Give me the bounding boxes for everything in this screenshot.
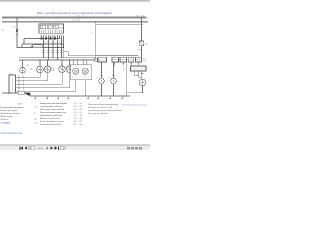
wire M3 top — [61, 60, 63, 66]
top page shadow — [0, 0, 150, 3]
legend right numbers — [74, 103, 83, 126]
svg-text:15 - 12: 15 - 12 — [74, 115, 83, 117]
connector row stubs — [115, 56, 139, 58]
junction dot right — [141, 49, 142, 50]
wire pin drop 2 — [43, 36, 45, 58]
motor M2 — [44, 66, 51, 73]
pump ground — [22, 73, 24, 75]
svg-text:See diagram: See diagram — [1, 121, 11, 124]
toolbar prev-page icon — [25, 146, 28, 150]
svg-text:Wiper motor: Wiper motor — [1, 115, 13, 118]
svg-text:Battery positive cable (Gere-F: Battery positive cable (Gere-Frtz) link — [40, 102, 68, 105]
svg-text:Motor - cigar lighter and warn: Motor - cigar lighter and warning screen… — [37, 11, 112, 15]
wire rail 15 — [2, 21, 148, 23]
wire rail aux — [96, 24, 144, 26]
footer separator line — [0, 144, 150, 146]
lamp E1 ground drop — [101, 84, 103, 96]
wire fuse feed — [16, 17, 18, 47]
legend third column — [88, 103, 123, 115]
switch S5 inner — [11, 78, 13, 92]
wire M1 top — [39, 60, 41, 66]
ground symbol 6 — [109, 96, 112, 100]
junction dots bus A — [42, 38, 56, 40]
lamp E2 ground drop — [113, 84, 115, 96]
wire step left 2 — [21, 44, 23, 48]
resistor R1 out wires — [134, 71, 142, 79]
svg-text:Washer: Washer — [1, 118, 9, 121]
wire pin drop 5 — [50, 36, 52, 39]
svg-text:31 - 16: 31 - 16 — [74, 124, 83, 126]
connector row box 2 — [120, 57, 127, 62]
unit U1 box — [71, 65, 92, 80]
ground symbol 5b — [97, 96, 100, 100]
ground wire to bus — [24, 93, 30, 96]
wire M2 top — [47, 60, 49, 66]
fuse S110 — [139, 41, 143, 46]
wire pump feed — [22, 60, 24, 67]
ground connector pair — [9, 92, 11, 94]
relay pin ticks — [42, 30, 62, 33]
lamp E1 — [99, 78, 104, 83]
relay contact cell 3 — [54, 25, 59, 29]
connector tick pairs on drops — [42, 51, 63, 52]
toolbar right layout icons — [127, 147, 142, 150]
wire step from drop 11 — [64, 52, 69, 56]
svg-text:0.5 br 0.5 sw 1.0 ro: 0.5 br 0.5 sw 1.0 ro — [44, 40, 60, 43]
relay internal marks — [42, 26, 57, 28]
toolbar next-page icon — [50, 146, 53, 150]
svg-text:C23a: C23a — [33, 46, 42, 48]
connector ticks on switch wires — [18, 76, 19, 92]
lamp E2 feed — [113, 62, 115, 78]
ground symbol 5 — [87, 96, 90, 100]
resistor R1 (blower resistor) — [131, 66, 147, 71]
svg-text:E4: E4 — [109, 78, 111, 80]
svg-text:Instrument cluster feed: Instrument cluster feed — [40, 123, 62, 126]
connector row box 4 — [136, 57, 142, 62]
blower motor M2 — [139, 79, 146, 86]
wire pin drop 7 — [54, 36, 56, 39]
toolbar last-page icon — [55, 146, 59, 150]
toolbar first-page icon — [19, 146, 23, 150]
ground symbol 4 — [67, 96, 70, 100]
wire M3 bottom — [61, 73, 63, 85]
wire M2 bottom — [47, 73, 49, 81]
svg-text:X124: X124 — [99, 60, 106, 62]
wire blower to bus — [127, 92, 143, 94]
ground symbol 3 — [57, 96, 60, 100]
wire pin drop 10 — [61, 36, 63, 58]
unit U1 element b — [82, 68, 88, 74]
svg-text:Powered by the circuit viewer: Powered by the circuit viewer — [122, 103, 147, 106]
lamp E2 — [111, 78, 116, 83]
svg-text:14 - 25: 14 - 25 — [74, 109, 83, 111]
wire pin drop 8 — [57, 36, 59, 60]
svg-text:Rear washer pump motor circuit: Rear washer pump motor circuit — [40, 111, 66, 114]
junction dots bus C — [49, 47, 64, 49]
svg-text:12 - 31: 12 - 31 — [74, 106, 83, 108]
terminal arrows on switch wires — [23, 76, 25, 92]
toolbar separator dot — [46, 147, 48, 150]
svg-text:S5: S5 — [10, 73, 12, 75]
svg-text:Blower resistor pack: Blower resistor pack — [40, 117, 61, 120]
wire M1 bottom — [39, 73, 41, 78]
lamp E2 connector tick — [112, 75, 115, 77]
vertical feed from rail 15 — [95, 22, 97, 61]
wire rail 30 — [2, 17, 147, 19]
connector label box C23 — [31, 45, 33, 47]
lamp E1 feed — [101, 62, 103, 78]
ground symbol 7 — [121, 96, 124, 100]
fuse F21 — [16, 29, 18, 32]
wire feed to connector row — [96, 55, 138, 57]
switch S5 box — [9, 75, 16, 93]
svg-text:Cigarette lighter relay coil: Cigarette lighter relay coil — [40, 105, 63, 108]
svg-text:Heated rear window: Heated rear window — [1, 112, 21, 115]
wire fuse to junction — [141, 46, 143, 57]
wire pin drop 3 — [45, 36, 47, 39]
svg-text:15: 15 — [91, 32, 93, 34]
switch wire 1 — [16, 76, 41, 78]
junction dots resistor — [141, 73, 142, 74]
svg-text:br brown sw black ro red: br brown sw black ro red — [88, 106, 113, 109]
svg-text:Fuse box engine compartment: Fuse box engine compartment — [1, 106, 24, 109]
svg-text:Heater blower switch feed: Heater blower switch feed — [40, 114, 63, 117]
lamp E1 connector tick — [100, 75, 103, 77]
legend left column — [1, 104, 24, 121]
switch wire 2 — [16, 80, 48, 82]
connector row box 0 — [98, 57, 107, 62]
svg-text:ge yellow gn green bl blue: ge yellow gn green bl blue ws white — [88, 109, 123, 112]
legend right column — [40, 102, 68, 126]
svg-text:B12: B12 — [18, 104, 24, 106]
motor M1 — [37, 66, 44, 73]
pump motor — [20, 67, 26, 73]
motor M3 — [59, 66, 66, 73]
left edge long wire — [126, 62, 128, 96]
connector row pin numbers — [114, 62, 140, 64]
wire drops from connector row — [115, 62, 139, 66]
switch wire 3 — [16, 83, 63, 85]
svg-text:14 - 61: 14 - 61 — [74, 112, 83, 114]
blower motor ground — [142, 86, 144, 93]
wire bus A — [24, 38, 61, 40]
motor M4 — [66, 66, 73, 73]
footer toolbar band — [0, 146, 150, 151]
relay coil cell 2 — [47, 25, 52, 29]
svg-text:/ 10%: / 10% — [35, 147, 44, 150]
switch wire 4 — [16, 87, 70, 89]
connector row box 3 — [128, 57, 134, 62]
wire mid feed — [68, 55, 96, 57]
wire pin drop 6 — [52, 36, 54, 58]
unit U1 element a — [73, 68, 79, 74]
svg-text:Earth distribution points: Earth distribution points — [40, 120, 65, 123]
junction dots bus B — [44, 43, 62, 45]
svg-text:R2: R2 — [143, 61, 145, 63]
svg-text:F21: F21 — [13, 27, 16, 29]
svg-text:E3: E3 — [97, 78, 99, 80]
toolbar zoom icons — [60, 147, 63, 150]
wire jog — [134, 75, 142, 77]
wire step left — [23, 39, 25, 45]
svg-text:See key to symbols: See key to symbols — [88, 112, 109, 115]
inline component on ground — [18, 91, 24, 95]
svg-text:Created with diagram tool: Created with diagram tool — [1, 132, 23, 135]
wire pin drop 4 — [48, 36, 50, 60]
svg-text:M9: M9 — [27, 65, 30, 67]
wire bus C — [17, 47, 64, 49]
svg-text:31 - 02: 31 - 02 — [74, 121, 83, 123]
svg-text:15 - 43: 15 - 43 — [74, 118, 83, 120]
svg-text:12 - 14: 12 - 14 — [74, 103, 83, 105]
svg-text:Relay cigar lighter: Relay cigar lighter — [1, 109, 18, 112]
legend mid numbers — [35, 107, 38, 125]
unit U1 pins — [74, 60, 87, 65]
wire pin drop 11 — [63, 36, 65, 48]
wire M4 bottom — [69, 73, 71, 88]
wire bus E — [19, 59, 96, 61]
brush ticks motor M2 — [52, 68, 53, 72]
ground bus — [30, 95, 130, 97]
svg-text:R1: R1 — [123, 69, 125, 71]
svg-text:Wire colours shown are typical: Wire colours shown are typical only — [88, 103, 119, 106]
unit U1 bottom pins — [76, 80, 86, 96]
junction dots bus E — [40, 59, 87, 61]
junction box right — [95, 59, 97, 61]
toolbar page box — [28, 146, 34, 149]
connector tick on fuse feed — [16, 34, 19, 36]
relay coil cell 1 — [40, 25, 45, 29]
fuse S110 drop — [141, 17, 143, 41]
relay K box — [39, 24, 64, 33]
wire drop C to bus D — [63, 48, 65, 58]
svg-text:Rear screen heater element: Rear screen heater element — [40, 108, 64, 111]
ground symbol 1 — [34, 96, 37, 100]
wire bus D — [19, 57, 96, 59]
connector row box 1 — [112, 57, 119, 62]
wire bus B — [22, 43, 64, 45]
switch wire 5 — [16, 90, 76, 92]
wire pin drop 1 — [41, 36, 43, 39]
wire pin drop 9 — [59, 36, 61, 39]
ground wire left segment — [2, 92, 18, 94]
ground symbol 2 — [46, 96, 49, 100]
wire M4 top — [69, 60, 71, 66]
junction branch tick — [138, 48, 141, 50]
